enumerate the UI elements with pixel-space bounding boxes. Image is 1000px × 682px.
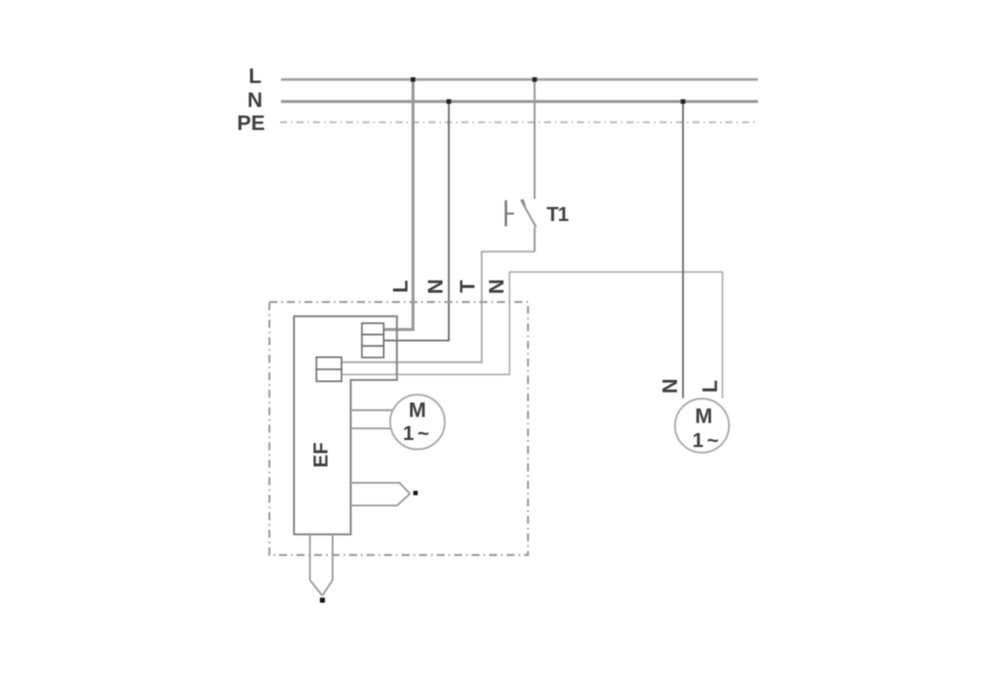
svg-text:T: T bbox=[457, 280, 480, 293]
svg-text:M: M bbox=[409, 399, 427, 422]
svg-text:N: N bbox=[425, 279, 448, 294]
svg-text:PE: PE bbox=[237, 112, 265, 135]
svg-text:M: M bbox=[695, 405, 713, 428]
svg-text:N: N bbox=[659, 378, 682, 393]
svg-text:N: N bbox=[486, 279, 509, 294]
svg-text:T1: T1 bbox=[547, 204, 569, 226]
svg-text:EF: EF bbox=[311, 442, 333, 468]
svg-text:L: L bbox=[699, 380, 722, 393]
svg-text:1 ~: 1 ~ bbox=[692, 430, 718, 452]
svg-text:1 ~: 1 ~ bbox=[403, 423, 429, 445]
svg-text:L: L bbox=[249, 65, 262, 88]
svg-text:N: N bbox=[247, 89, 262, 112]
svg-text:L: L bbox=[390, 280, 413, 293]
